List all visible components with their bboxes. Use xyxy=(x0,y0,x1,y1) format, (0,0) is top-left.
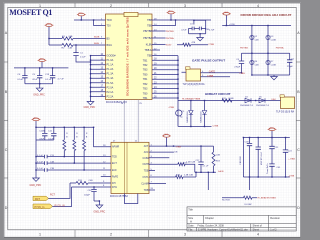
svg-text:P1.0A: P1.0A xyxy=(107,59,114,62)
svg-text:DL DAT: DL DAT xyxy=(245,203,253,206)
svg-text:270pF: 270pF xyxy=(234,67,241,69)
svg-text:TB2: TB2 xyxy=(143,83,148,86)
svg-text:PB/TBA: PB/TBA xyxy=(276,47,284,50)
svg-text:D: D xyxy=(297,206,300,210)
svg-text:C4B: C4B xyxy=(255,64,260,66)
svg-text:A: A xyxy=(190,220,192,224)
svg-text:PB/TBB: PB/TBB xyxy=(240,48,248,50)
svg-text:C: C xyxy=(297,148,300,152)
svg-text:0.1 uF: 0.1 uF xyxy=(37,168,44,170)
svg-text:DOCC1575B2: DOCC1575B2 xyxy=(110,194,128,198)
svg-text:100pF: 100pF xyxy=(84,195,91,197)
svg-text:0.1uF: 0.1uF xyxy=(48,139,54,141)
svg-text:RCT: RCT xyxy=(50,193,55,196)
svg-text:TB1: TB1 xyxy=(143,97,148,100)
svg-text:PB/TBA: PB/TBA xyxy=(143,37,152,40)
svg-text:C4B: C4B xyxy=(255,39,260,41)
svg-text:PYCV_In: PYCV_In xyxy=(35,206,46,209)
svg-text:DH1: DH1 xyxy=(112,186,117,189)
svg-text:04B: 04B xyxy=(69,36,73,38)
svg-text:Tnmx BxTx: Tnmx BxTx xyxy=(267,163,269,174)
svg-text:4: 4 xyxy=(257,232,259,236)
svg-text:B0/A: B0/A xyxy=(107,44,113,47)
svg-text:Friday, October 24, 2008: Friday, October 24, 2008 xyxy=(198,225,225,228)
svg-text:KLBV: KLBV xyxy=(146,44,153,47)
svg-text:GND_PRC: GND_PRC xyxy=(84,106,96,109)
svg-text:RCT: RCT xyxy=(35,198,40,201)
svg-text:P1.1A: P1.1A xyxy=(107,64,114,67)
svg-text:CCB4: CCB4 xyxy=(143,157,150,160)
svg-text:DCC1545AS-QX: DCC1545AS-QX xyxy=(106,100,127,104)
svg-text:TDB: TDB xyxy=(144,170,149,173)
svg-text:HI_BEAT/BVTBBB: HI_BEAT/BVTBBB xyxy=(258,197,277,200)
svg-text:APWR: APWR xyxy=(112,146,119,149)
svg-text:4: 4 xyxy=(257,4,259,8)
svg-text:TLP DS (5) B RA: TLP DS (5) B RA xyxy=(276,110,295,113)
svg-text:P1.4A: P1.4A xyxy=(107,77,114,80)
svg-text:C24B: C24B xyxy=(271,39,277,41)
svg-text:C7BB: C7BB xyxy=(207,75,214,78)
svg-text:1N4148W-7-F: 1N4148W-7-F xyxy=(240,105,254,107)
svg-text:GND_PRC: GND_PRC xyxy=(94,211,106,214)
svg-text:J7BB: J7BB xyxy=(176,146,182,148)
svg-text:0.1 uF: 0.1 uF xyxy=(37,155,44,157)
svg-text:47uF: 47uF xyxy=(39,139,44,141)
svg-text:TB0: TB0 xyxy=(143,73,148,76)
svg-text:TLP (2)(3)(4)(5) B RA: TLP (2)(3)(4)(5) B RA xyxy=(183,83,206,86)
svg-text:P2.2A: P2.2A xyxy=(107,95,114,98)
svg-text:47uF: 47uF xyxy=(32,79,38,81)
svg-text:4.7uF: 4.7uF xyxy=(209,30,215,32)
svg-text:NC R1B: NC R1B xyxy=(222,199,230,201)
svg-text:TDO: TDO xyxy=(107,19,112,22)
svg-text:OUTB: OUTB xyxy=(143,163,150,166)
svg-text:C7BB: C7BB xyxy=(213,125,219,127)
svg-text:MOSFET Q1: MOSFET Q1 xyxy=(9,8,52,17)
svg-text:2: 2 xyxy=(110,232,112,236)
svg-text:+VDD: +VDD xyxy=(229,24,235,26)
svg-text:Title: Title xyxy=(188,209,193,212)
svg-text:1N4148W-7-F: 1N4148W-7-F xyxy=(256,105,270,107)
svg-text:CLAMP: CLAMP xyxy=(141,182,150,185)
svg-text:C24B: C24B xyxy=(271,64,277,66)
svg-text:OVTL: OVTL xyxy=(143,176,150,179)
svg-text:DH: DH xyxy=(112,182,116,185)
svg-text:GATE: GATE xyxy=(209,70,216,73)
svg-text:PB/TBA: PB/TBA xyxy=(166,37,174,40)
svg-text:Date:: Date: xyxy=(188,225,194,228)
svg-text:0.1 uF: 0.1 uF xyxy=(37,161,44,163)
svg-text:0.1 uF: 0.1 uF xyxy=(203,166,210,168)
svg-text:C: C xyxy=(5,148,8,152)
svg-text:TB1: TB1 xyxy=(143,78,148,81)
svg-text:E:\MPB_Hardware_Costron\Sch\Mo: E:\MPB_Hardware_Costron\Sch\MosfetQ1.dsn xyxy=(198,228,248,231)
svg-text:MMBD4148: MMBD4148 xyxy=(201,111,203,123)
svg-text:0.1uF: 0.1uF xyxy=(17,79,23,81)
svg-text:270pF: 270pF xyxy=(287,66,294,68)
svg-text:MVP BT 47uF: MVP BT 47uF xyxy=(261,151,263,165)
svg-text:3: 3 xyxy=(184,4,186,8)
svg-text:C1B: C1B xyxy=(50,161,55,163)
svg-text:TB1: TB1 xyxy=(143,59,148,62)
svg-text:ECF: ECF xyxy=(112,169,117,172)
svg-text:C10B: C10B xyxy=(39,131,45,133)
svg-text:TDB: TDB xyxy=(144,189,149,192)
svg-text:P1.2A: P1.2A xyxy=(107,68,114,71)
svg-text:TB0: TB0 xyxy=(143,92,148,95)
svg-text:P2.0A: P2.0A xyxy=(107,86,114,89)
svg-text:TB3: TB3 xyxy=(143,69,148,72)
svg-text:1.4B: 1.4B xyxy=(68,48,73,50)
svg-text:-J7BB: -J7BB xyxy=(168,107,174,109)
svg-text:1 of 2: 1 of 2 xyxy=(270,228,277,231)
svg-text:C1B R1B: C1B R1B xyxy=(240,156,242,165)
svg-text:DRV8B DRIVER REG ADJ CIRCUIT: DRV8B DRIVER REG ADJ CIRCUIT xyxy=(241,13,292,17)
svg-text:B0/A: B0/A xyxy=(94,42,99,45)
svg-text:HI_BEAT/BVTBBB: HI_BEAT/BVTBBB xyxy=(182,98,201,101)
svg-text:1.4B C4B: 1.4B C4B xyxy=(186,161,196,163)
svg-text:TB2: TB2 xyxy=(143,64,148,67)
svg-text:GATE PULSE OUTPUT: GATE PULSE OUTPUT xyxy=(192,59,225,63)
svg-text:AVC: AVC xyxy=(144,151,149,154)
svg-text:TDD: TDD xyxy=(112,156,117,159)
svg-text:C1B: C1B xyxy=(50,168,55,170)
svg-text:KLBV: KLBV xyxy=(166,45,172,47)
svg-text:TB3: TB3 xyxy=(143,88,148,91)
svg-text:1: 1 xyxy=(39,232,41,236)
svg-text:C7BB: C7BB xyxy=(208,44,214,46)
svg-text:SOLOMON BARSIDE / 7 mA ICB mAl: SOLOMON BARSIDE / 7 mA ICB mAl mxm QxTBB xyxy=(125,16,129,96)
svg-text:P1.3A: P1.3A xyxy=(107,73,114,76)
svg-text:AVT: AVT xyxy=(144,145,149,148)
svg-text:C04B: C04B xyxy=(228,98,234,100)
svg-text:Sheet: Sheet xyxy=(253,228,260,231)
svg-text:File:: File: xyxy=(188,228,193,231)
svg-text:PB/TBB: PB/TBB xyxy=(166,31,174,33)
svg-text:B04B: B04B xyxy=(94,37,100,39)
svg-text:SdFB: SdFB xyxy=(218,171,224,173)
svg-text:GND_PRC: GND_PRC xyxy=(30,184,42,187)
svg-text:PB/TBB: PB/TBB xyxy=(143,30,152,33)
svg-text:1.4B C4B: 1.4B C4B xyxy=(184,174,194,176)
svg-text:TBB A: TBB A xyxy=(145,49,152,52)
svg-text:TBB: TBB xyxy=(147,19,152,22)
svg-text:Sheet of: Sheet of xyxy=(253,225,263,228)
svg-text:ECT: ECT xyxy=(112,162,117,165)
svg-text:2: 2 xyxy=(110,4,112,8)
svg-text:0.1uF: 0.1uF xyxy=(80,57,86,59)
svg-text:C4B: C4B xyxy=(216,155,221,157)
svg-text:P2.1A: P2.1A xyxy=(107,91,114,94)
svg-text:+J7BB: +J7BB xyxy=(288,159,295,161)
svg-text:HI/BEAT CIRCUIT: HI/BEAT CIRCUIT xyxy=(205,92,231,96)
svg-text:Revision: Revision xyxy=(270,217,280,220)
svg-text:TBB: TBB xyxy=(147,55,152,58)
svg-text:C1B: C1B xyxy=(245,141,250,143)
svg-text:0.1 uF: 0.1 uF xyxy=(45,79,52,81)
svg-text:1: 1 xyxy=(39,4,41,8)
svg-text:P1.5A: P1.5A xyxy=(107,82,114,85)
svg-text:R1B: R1B xyxy=(216,161,221,163)
svg-text:D: D xyxy=(5,206,8,210)
svg-text:MMBD4148: MMBD4148 xyxy=(187,111,189,123)
svg-text:Chapter: Chapter xyxy=(205,217,214,220)
svg-text:TDI: TDI xyxy=(107,25,111,28)
svg-text:47B: 47B xyxy=(191,42,195,44)
svg-text:3: 3 xyxy=(184,232,186,236)
svg-text:GOOD#: GOOD# xyxy=(107,55,117,58)
svg-text:GND_PRC: GND_PRC xyxy=(33,94,45,97)
svg-text:4.7uF: 4.7uF xyxy=(181,30,187,32)
svg-text:RuFE: RuFE xyxy=(112,176,119,179)
svg-text:4.7 uF: 4.7 uF xyxy=(58,79,65,81)
svg-text:TBB: TBB xyxy=(147,25,152,28)
svg-text:-J7BB: -J7BB xyxy=(288,175,294,177)
svg-text:C4B: C4B xyxy=(89,180,94,182)
svg-text:PYCV_IN: PYCV_IN xyxy=(55,204,66,207)
svg-text:C7BB: C7BB xyxy=(239,73,245,75)
